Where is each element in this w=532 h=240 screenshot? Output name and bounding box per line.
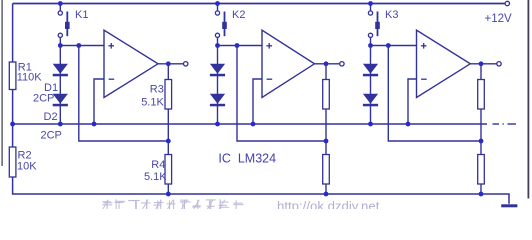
svg-text:2CP: 2CP <box>33 93 54 105</box>
svg-text:+12V: +12V <box>485 13 513 25</box>
svg-text:5.1K: 5.1K <box>141 97 164 109</box>
svg-text:K1: K1 <box>75 9 88 21</box>
svg-text:5.1K: 5.1K <box>144 171 167 183</box>
svg-text:D2: D2 <box>44 111 58 123</box>
svg-text:IC LM324: IC LM324 <box>218 151 276 165</box>
svg-text:http://ok.dzdiy.net: http://ok.dzdiy.net <box>277 199 380 210</box>
svg-text:110K: 110K <box>17 71 43 83</box>
svg-text:K3: K3 <box>385 9 398 21</box>
svg-text:2CP: 2CP <box>41 130 62 142</box>
svg-text:R3: R3 <box>150 84 164 96</box>
svg-text:10K: 10K <box>17 160 37 172</box>
svg-text:K2: K2 <box>232 9 245 21</box>
svg-text:R4: R4 <box>151 159 165 171</box>
